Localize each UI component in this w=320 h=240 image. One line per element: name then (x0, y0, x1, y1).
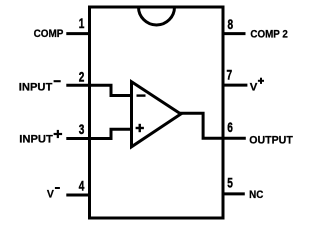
svg-text:8: 8 (228, 17, 234, 33)
superscript minus of V- (55, 187, 60, 189)
pin 5 lead (222, 192, 245, 195)
pin 7 lead (222, 84, 248, 87)
svg-text:OUTPUT: OUTPUT (249, 134, 293, 146)
svg-text:7: 7 (227, 68, 233, 84)
superscript minus of INPUT- (54, 80, 61, 82)
pin 4 lead (66, 194, 91, 197)
svg-text:3: 3 (79, 122, 85, 138)
non-inverting input plus symbol (136, 127, 144, 129)
superscript plus of V+ (258, 80, 264, 82)
wire pin 3 to non-inverting input (90, 129, 132, 138)
superscript plus of INPUT+ (54, 133, 63, 135)
svg-text:6: 6 (227, 120, 233, 136)
wire op-amp output to pin 6 (180, 113, 223, 138)
svg-text:INPUT: INPUT (19, 133, 53, 145)
svg-text:V: V (47, 189, 54, 201)
pin 1 lead (66, 32, 91, 35)
inverting input minus symbol (137, 94, 146, 96)
pin 6 lead (222, 137, 246, 140)
pin 2 lead (66, 84, 91, 87)
IC package body U1 (8-pin DIP outline) (90, 7, 224, 218)
svg-text:2: 2 (79, 69, 85, 85)
pin 8 lead (222, 32, 246, 35)
svg-text:V: V (250, 81, 258, 93)
pin 3 lead (66, 137, 91, 140)
svg-text:1: 1 (79, 16, 85, 32)
svg-text:5: 5 (227, 176, 233, 192)
notch (pin-1 orientation semicircle) (139, 7, 175, 25)
svg-text:COMP 2: COMP 2 (250, 29, 288, 41)
op-amp A1 triangle (132, 82, 181, 147)
wire pin 2 to inverting input (90, 85, 132, 95)
svg-text:4: 4 (79, 179, 85, 195)
svg-text:NC: NC (249, 189, 263, 201)
svg-text:COMP: COMP (34, 28, 64, 40)
svg-text:INPUT: INPUT (19, 81, 53, 93)
